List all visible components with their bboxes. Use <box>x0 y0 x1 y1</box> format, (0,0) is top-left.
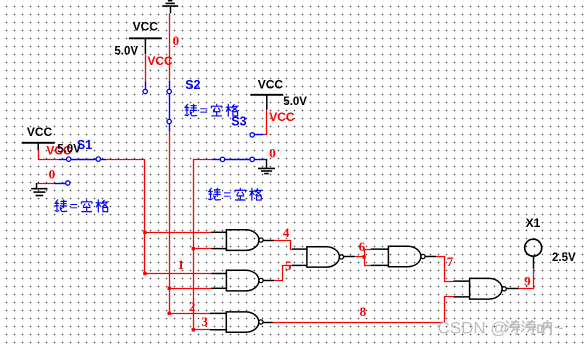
gate U1D output pin <box>425 256 436 258</box>
svg-text:8: 8 <box>360 304 367 319</box>
net 6 vertical tie <box>364 249 366 265</box>
VCC power symbol V1 <box>22 143 55 151</box>
wire net 8: U2A out to U2B input B <box>273 297 454 323</box>
switch S1 throw contact (ground side, open) <box>66 181 70 185</box>
svg-text:5.0V: 5.0V <box>283 96 307 108</box>
wire VCC down and left to S3 top throw <box>263 110 267 135</box>
wire branch to gate U1A input A <box>145 232 212 234</box>
label key = space (S1) <box>55 200 108 212</box>
NAND gate U2A (74LS00 NAND) <box>210 312 263 332</box>
svg-text:0: 0 <box>49 166 56 181</box>
switch S3 blade (closed to ground throw) <box>225 159 250 161</box>
switch S3 common contact <box>220 157 224 161</box>
label key = space (S2) <box>185 104 238 116</box>
switch S1 pin leads <box>59 159 66 161</box>
VCC power symbol V2 <box>129 38 162 54</box>
junction at column2/U2A <box>168 312 171 315</box>
wire net 2: S3 common left and down column 3 <box>194 160 213 249</box>
net 6 to U1D input A <box>364 249 371 251</box>
svg-text:2.5V: 2.5V <box>552 252 576 264</box>
svg-text:S2: S2 <box>185 78 200 92</box>
label key = space (S3) <box>208 188 261 200</box>
svg-text:CSDN @: CSDN @ <box>438 319 508 338</box>
switch S1 blade (closed to VCC throw) <box>71 159 96 161</box>
wire branch to gate U1A input B <box>193 248 211 250</box>
switch S2 common contact <box>167 119 171 123</box>
junction at column2/U1B <box>168 287 171 290</box>
svg-text:VCC: VCC <box>258 77 284 91</box>
svg-text:S3: S3 <box>231 115 246 129</box>
wire branch to gate U1B input A <box>145 273 212 275</box>
svg-text:VCC: VCC <box>269 110 295 124</box>
svg-text:6: 6 <box>359 239 366 254</box>
ground GND top <box>162 1 178 6</box>
wire net 7: U1D out to U2B input A <box>436 257 453 282</box>
wire branch to gate U2A input B <box>193 329 210 331</box>
wire column 2 lower segment <box>169 288 171 313</box>
switch S3 throw contact (ground side) <box>250 157 254 161</box>
switch S2 throw contact (ground side) <box>167 89 171 93</box>
NAND gate U1B (74LS00 NAND) <box>212 270 264 291</box>
svg-text:1: 1 <box>178 257 185 272</box>
wire left ground to S1 lower throw <box>37 183 54 185</box>
wire net 6: U1C out to U1D both inputs <box>355 256 364 258</box>
gate U2A output pin <box>263 322 273 324</box>
NAND gate U1A (74LS00 NAND) <box>212 230 264 251</box>
ground GND-left stem <box>36 183 38 189</box>
NAND gate U1D (74LS00 NAND) <box>371 246 425 266</box>
junction at column3/U2A <box>192 328 195 331</box>
junction at column1/U1A <box>143 231 146 234</box>
ground GND left <box>31 189 47 196</box>
wire column 1 lower segment <box>144 232 146 273</box>
svg-text:VCC: VCC <box>133 20 159 34</box>
svg-text:9: 9 <box>524 274 531 289</box>
switch S2 throw contact (VCC side, open) <box>143 89 147 93</box>
wire VCC down to S2 alternate throw <box>145 54 147 82</box>
gate U1A output pin <box>263 240 274 242</box>
switch S1 throw contact (VCC side) <box>67 157 71 161</box>
junction at column3/U1A <box>192 247 195 250</box>
ground GND right <box>258 168 275 173</box>
svg-text:3: 3 <box>201 314 208 329</box>
svg-text:5.0V: 5.0V <box>114 46 138 58</box>
wire net 1: S2 common down column 2 <box>169 132 171 289</box>
svg-text:5: 5 <box>285 258 292 273</box>
NAND gate U2B (74LS00 NAND) <box>453 278 506 299</box>
wire VCC to S1 top throw <box>39 150 60 160</box>
VCC power symbol V3 <box>250 95 283 110</box>
switch S1 common contact <box>96 157 100 161</box>
gate U1C output pin <box>344 256 355 258</box>
gate U1B output pin <box>263 280 274 282</box>
svg-text:VCC: VCC <box>147 54 173 68</box>
svg-text:0: 0 <box>173 33 180 48</box>
wire branch to gate U1B input B <box>169 288 211 290</box>
junction net 6 <box>362 255 365 258</box>
junction at column1/U1B <box>143 272 146 275</box>
svg-text:4: 4 <box>283 225 290 240</box>
switch S2 blade (closed to ground throw) <box>169 94 171 120</box>
svg-text:~: ~ <box>554 319 564 338</box>
svg-text:S1: S1 <box>77 138 92 152</box>
svg-text:0: 0 <box>269 146 276 161</box>
svg-text:VCC: VCC <box>27 125 53 139</box>
switch S3 throw contact (VCC side, open) <box>250 133 254 137</box>
wire net 5: U1B out to U1C input B <box>274 266 292 281</box>
svg-text:7: 7 <box>447 254 454 269</box>
wire branch to gate U2A input A <box>169 313 210 315</box>
wire net 0: top ground down to S2 throw <box>169 14 171 82</box>
svg-text:2: 2 <box>189 299 196 314</box>
wire column 3 lower segment <box>193 249 195 330</box>
probe X1 lamp <box>525 239 542 256</box>
NAND gate U1C (74LS00 NAND) <box>292 247 344 267</box>
wire/pin from S3 ground throw to ground <box>265 160 268 168</box>
wire net from S1 common to column 1 <box>106 160 144 233</box>
svg-text:X1: X1 <box>526 216 541 230</box>
ground GND-top stem <box>170 6 172 13</box>
wire net 4: U1A out to U1C input A <box>274 241 292 250</box>
wire net 9: U2B out to probe X1 <box>519 268 534 288</box>
probe X1 pin <box>533 256 535 268</box>
switch S3 pin leads <box>254 134 263 136</box>
net 6 to U1D input B <box>364 265 371 267</box>
gate U2B output pin <box>506 288 519 290</box>
switch S2 pin leads <box>145 82 147 90</box>
